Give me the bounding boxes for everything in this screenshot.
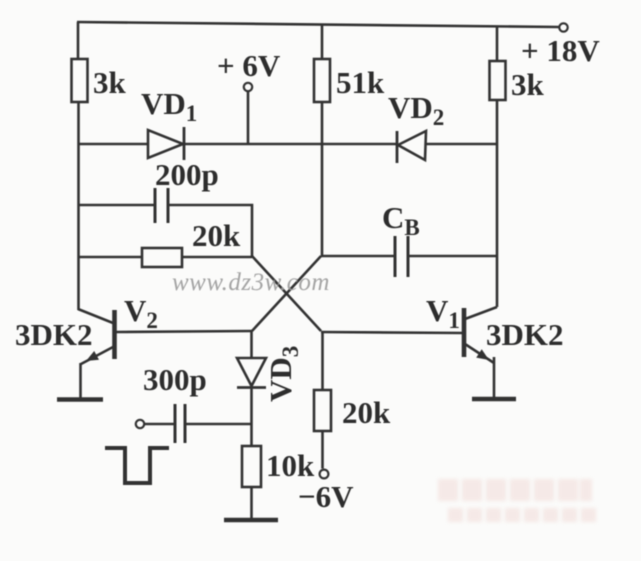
svg-text:www.dz3w.com: www.dz3w.com xyxy=(172,269,330,296)
wire V2 emitter down xyxy=(79,363,82,399)
svg-text:−6V: −6V xyxy=(298,479,354,514)
resistor 10k xyxy=(242,446,261,487)
wire VD1 anode xyxy=(78,143,148,146)
svg-text:3DK2: 3DK2 xyxy=(15,317,93,352)
transistor V2 emitter xyxy=(81,347,113,364)
ground bottom xyxy=(224,518,278,523)
terminal +18V xyxy=(559,23,567,31)
trigger pulse waveform xyxy=(105,448,169,483)
diode VD1 xyxy=(148,130,183,158)
wire V1 emitter down xyxy=(493,357,496,398)
wire cross coupling left-to-right xyxy=(252,256,321,331)
diode VD1 cathode bar xyxy=(183,127,186,160)
wire 20k feedback right xyxy=(182,256,252,259)
transistor V1 emitter arrow xyxy=(476,349,489,360)
transistor V2 collector xyxy=(78,309,113,323)
wire 200p left xyxy=(78,204,155,207)
wire 20k bias bottom xyxy=(321,431,324,469)
capacitor 200p xyxy=(155,188,168,223)
transistor V2 emitter arrow xyxy=(86,351,99,361)
wire VD1 to VD2 xyxy=(184,143,396,146)
wire right rail lower xyxy=(496,100,499,307)
wire 20k bias top xyxy=(321,331,324,390)
transistor V1 collector xyxy=(465,307,497,319)
ground V2 xyxy=(57,397,103,402)
resistor 20k feedback xyxy=(142,248,182,267)
svg-text:VD2: VD2 xyxy=(388,90,444,130)
svg-text:20k: 20k xyxy=(342,395,391,430)
diode VD3 cathode bar xyxy=(237,386,266,389)
svg-text:10k: 10k xyxy=(266,448,315,483)
wire +6V drop xyxy=(247,91,250,145)
svg-text:V2: V2 xyxy=(124,293,158,333)
svg-text:V1: V1 xyxy=(426,293,460,333)
transistor V1 emitter xyxy=(465,344,494,363)
wire CB right xyxy=(408,255,497,258)
wire VD2 to right rail xyxy=(426,143,497,146)
transistor V1 base bar xyxy=(462,308,467,357)
svg-text:20k: 20k xyxy=(192,218,241,253)
svg-text:CB: CB xyxy=(382,200,420,240)
terminal trigger input xyxy=(136,420,144,428)
wire right rail upper xyxy=(496,26,499,62)
watermark pink bottom right xyxy=(438,479,596,522)
svg-text:3DK2: 3DK2 xyxy=(486,317,564,352)
wire V1 base xyxy=(321,332,464,333)
diode VD2 cathode bar xyxy=(396,131,399,163)
svg-text:200p: 200p xyxy=(155,157,219,192)
wire CB left xyxy=(321,255,395,258)
wire 20k feedback left xyxy=(78,256,142,259)
wire 200p right xyxy=(168,205,252,256)
wire 51k rail upper xyxy=(321,24,324,60)
wire left rail upper xyxy=(77,22,80,60)
wire 51k rail lower xyxy=(321,102,324,257)
ground V1 xyxy=(472,397,516,402)
diode VD3 xyxy=(237,358,266,386)
wire left rail lower xyxy=(77,102,80,310)
svg-text:300p: 300p xyxy=(143,362,207,397)
wire VD3 top xyxy=(250,331,253,358)
resistor 3k right xyxy=(490,61,506,100)
svg-text:VD1: VD1 xyxy=(141,86,197,126)
wire V2 base xyxy=(115,331,253,332)
terminal -6V xyxy=(320,470,329,479)
svg-text:+ 6V: + 6V xyxy=(217,48,281,83)
transistor V2 base bar xyxy=(112,310,117,359)
diode VD2 xyxy=(398,131,426,160)
svg-text:3k: 3k xyxy=(511,67,545,102)
wire input to 300p xyxy=(145,423,176,426)
capacitor CB xyxy=(395,236,408,277)
capacitor 300p xyxy=(175,404,185,443)
resistor 51k xyxy=(314,59,330,102)
svg-text:3k: 3k xyxy=(93,65,127,100)
svg-text:51k: 51k xyxy=(336,65,385,100)
wire VD3 to 10k xyxy=(250,388,253,447)
wire 300p right xyxy=(185,423,252,426)
svg-text:VD3: VD3 xyxy=(263,346,303,402)
resistor 20k bias xyxy=(314,390,331,431)
terminal +6V xyxy=(244,83,252,91)
svg-text:+ 18V: + 18V xyxy=(521,33,600,68)
wire top supply rail xyxy=(77,22,559,27)
wire 10k to ground xyxy=(250,487,253,520)
resistor 3k left xyxy=(72,59,88,102)
wire cross coupling right-to-left xyxy=(252,256,321,331)
